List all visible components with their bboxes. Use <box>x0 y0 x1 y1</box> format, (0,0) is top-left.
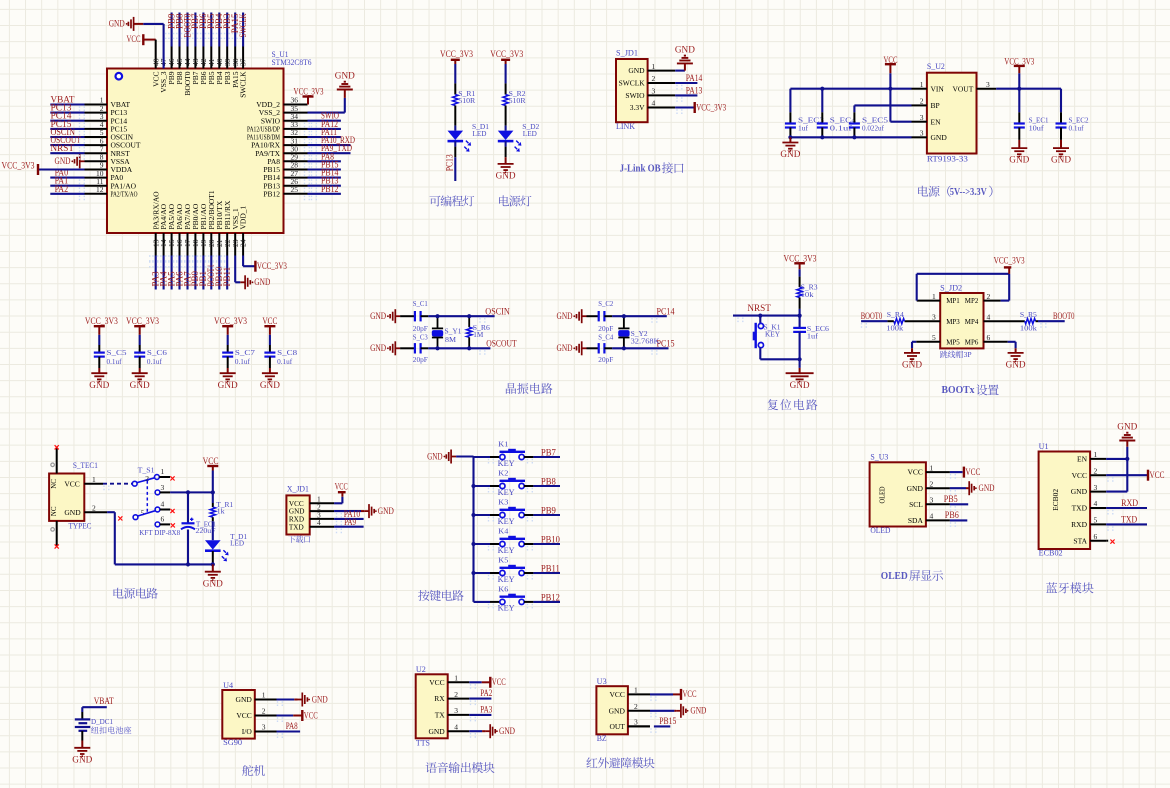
wire <box>799 269 801 276</box>
svg-text:RT9193-33: RT9193-33 <box>927 155 968 164</box>
LED T_D1 <box>205 521 247 561</box>
U1 pin 27 PB14 <box>263 169 307 182</box>
U1 pin 22 PB11/RX <box>223 200 232 255</box>
ground at U1 VSS_2 pin 35 <box>308 71 356 113</box>
U1 pin 45 PB8 <box>175 47 184 85</box>
wire net RXD <box>1106 498 1147 508</box>
svg-text:VCC: VCC <box>304 710 318 720</box>
U1 pin 30 PA9/TX <box>255 144 307 157</box>
capacitor S_C8 0.1uf <box>264 335 297 368</box>
ground at S_U3 pin 2 <box>950 481 995 495</box>
capacitor S_EC3 1uf <box>785 89 824 138</box>
svg-text:PB5: PB5 <box>944 494 958 504</box>
svg-text:VCC: VCC <box>262 316 277 326</box>
junction <box>435 314 439 318</box>
svg-text:VCC: VCC <box>965 467 980 477</box>
wire net VBAT <box>82 696 114 712</box>
svg-text:GND: GND <box>64 508 81 517</box>
svg-text:32.768K: 32.768K <box>631 336 661 345</box>
power flag VCC_3V3 at S_JD1 pin 4 <box>675 102 726 113</box>
svg-text:K5: K5 <box>498 556 508 565</box>
svg-text:PB12: PB12 <box>541 592 560 602</box>
svg-text:GND: GND <box>1051 155 1072 165</box>
svg-text:VOUT: VOUT <box>952 84 973 93</box>
U1 pin 1 EN <box>1077 450 1106 463</box>
S_JD1 pin 2 SWCLK <box>619 74 676 87</box>
svg-text:GND: GND <box>1006 360 1027 370</box>
svg-text:2: 2 <box>920 97 924 106</box>
wire net PB15 <box>308 160 341 170</box>
junction <box>471 484 475 488</box>
svg-text:PC14: PC14 <box>657 306 675 316</box>
svg-text:3: 3 <box>161 483 165 492</box>
svg-text:BOOT0: BOOT0 <box>861 311 883 321</box>
wire net BOOT1 <box>206 256 216 290</box>
svg-text:VCC_3V3: VCC_3V3 <box>126 316 159 326</box>
wire net OSCOUT <box>428 339 517 349</box>
svg-text:SWCLK: SWCLK <box>238 13 248 37</box>
svg-text:S_C7: S_C7 <box>235 348 255 357</box>
wire net PA9 <box>334 517 364 527</box>
S_JD2 pin 4 lead <box>984 320 1025 322</box>
U1 pin 15 PA5/AO <box>167 203 176 255</box>
svg-text:VCC: VCC <box>1150 470 1165 480</box>
junction <box>888 87 892 91</box>
svg-text:3: 3 <box>986 80 990 89</box>
push button K3 KEY <box>474 498 526 526</box>
svg-text:GND: GND <box>628 66 645 75</box>
power flag VCC at S_U3 pin 1 <box>950 467 981 478</box>
svg-text:GND: GND <box>370 311 386 321</box>
power flag VCC_3V3 above S_R3 <box>784 253 817 269</box>
U2 pin 3 VOUT <box>952 80 996 93</box>
svg-text:SWCLK: SWCLK <box>619 79 646 88</box>
svg-text:1uf: 1uf <box>807 331 819 340</box>
speech module U2 TTS body <box>416 665 448 747</box>
svg-text:PB8: PB8 <box>541 476 556 486</box>
push button K4 KEY <box>474 527 526 555</box>
U1 pin 3 PC14 <box>85 112 128 125</box>
svg-text:S_TEC1: S_TEC1 <box>73 461 98 470</box>
crystal S_Y1 8M <box>432 316 462 348</box>
ground at S_C2 <box>557 309 587 323</box>
svg-text:GND: GND <box>130 380 151 390</box>
svg-text:2: 2 <box>634 702 638 711</box>
ground at U1 VSS_1 pin 23 <box>235 256 271 290</box>
svg-text:S_C5: S_C5 <box>107 348 127 357</box>
wire net PB6 <box>945 510 968 520</box>
ground below S_D2 <box>496 141 517 180</box>
S_JD2 pin 1 lead <box>917 300 941 302</box>
wire VCC to EN pin <box>890 89 911 122</box>
X_JD1 pin 3 RXD <box>289 510 334 523</box>
svg-text:1: 1 <box>454 674 458 683</box>
U1 pin 32 PA11/USB/DM <box>247 128 308 141</box>
wire net PA14 <box>675 73 703 83</box>
bluetooth module U1 ECB02 body <box>1039 442 1091 557</box>
svg-text:K3: K3 <box>498 498 508 507</box>
U2 pin 2 RX <box>434 690 469 703</box>
capacitor S_EC5 0.022uf <box>849 112 888 137</box>
ground below S_EC1 <box>1009 140 1030 165</box>
wire VCC loop <box>917 274 1010 301</box>
svg-text:TXD: TXD <box>1121 514 1137 524</box>
S_JD2 pins 1/2 MP1 MP2 <box>932 292 991 305</box>
svg-text:3: 3 <box>652 87 656 96</box>
wire <box>799 309 801 316</box>
svg-text:EN: EN <box>931 117 942 126</box>
U1 pin 5 RXD <box>1071 516 1106 529</box>
svg-text:GND: GND <box>236 695 253 704</box>
svg-text:KEY: KEY <box>765 330 781 339</box>
svg-text:VCC: VCC <box>609 690 624 699</box>
svg-text:LINK: LINK <box>616 122 635 131</box>
svg-text:2: 2 <box>92 503 96 512</box>
wire <box>505 64 507 83</box>
svg-text:VCC_3V3: VCC_3V3 <box>214 316 247 326</box>
svg-text:PB11: PB11 <box>222 267 232 287</box>
svg-text:VCC: VCC <box>492 677 506 687</box>
resistor S_R3 10k <box>797 277 818 309</box>
svg-text:TTS: TTS <box>416 738 430 747</box>
wire net PB11 <box>524 563 560 573</box>
wire net PB9 <box>524 505 560 515</box>
svg-text:10k: 10k <box>801 290 814 299</box>
junction <box>467 346 471 350</box>
wire switch common to VCC node <box>160 491 213 493</box>
svg-text:VCC: VCC <box>907 468 922 477</box>
wire net PB8 <box>524 476 560 486</box>
U4 pin 2 VCC <box>236 707 276 720</box>
power flag VCC_3V3 at U2 VOUT <box>1004 56 1034 88</box>
svg-text:S_U2: S_U2 <box>927 62 945 71</box>
power flag VCC above S_C8 <box>262 316 277 335</box>
svg-text:SWIO: SWIO <box>625 91 645 100</box>
power flag VCC at U3 pin 1 <box>650 689 697 700</box>
U1 pin 14 PA4/AO <box>159 203 168 255</box>
svg-text:VCC_3V3: VCC_3V3 <box>696 102 726 112</box>
svg-text:S_R4: S_R4 <box>887 310 904 319</box>
svg-text:PA13: PA13 <box>686 85 703 95</box>
svg-text:5V-->3.3V: 5V-->3.3V <box>950 187 987 198</box>
S_JD2 pins 5/6 MP5 MP6 <box>932 333 991 346</box>
caption BOOTx设置 <box>942 384 999 396</box>
U1 pin 46 PB9 <box>167 47 176 85</box>
caption 按键电路 <box>418 590 429 601</box>
svg-text:VCC_3V3: VCC_3V3 <box>85 316 118 326</box>
U1 STA stub <box>1106 540 1114 544</box>
svg-text:0.1uf: 0.1uf <box>147 357 162 366</box>
svg-text:4: 4 <box>987 312 991 321</box>
U1 pin 5 OSCIN <box>85 128 134 141</box>
power flag VCC_3V3 at U1 VDD_1 pin 24 <box>243 256 287 272</box>
svg-text:GND: GND <box>690 706 706 716</box>
wire net PB11 <box>222 256 232 290</box>
svg-text:3: 3 <box>1094 483 1098 492</box>
svg-text:PC13: PC13 <box>445 154 455 171</box>
svg-text:100k: 100k <box>886 324 903 333</box>
ground below reset circuit <box>786 359 814 390</box>
ground at U1 VSSA pin 8 <box>55 154 85 168</box>
svg-text:SDA: SDA <box>908 516 924 525</box>
U1 pin 23 VSS_1 <box>231 208 240 256</box>
U1 pin 35 VSS_2 <box>259 104 308 117</box>
U2 pin 4 GND <box>428 722 469 735</box>
svg-text:S_C2: S_C2 <box>598 299 613 308</box>
svg-text:PB7: PB7 <box>541 447 556 457</box>
U1 pin 37 SWCLK <box>239 47 248 98</box>
wire GND bus <box>790 136 911 138</box>
svg-text:NC: NC <box>50 479 58 489</box>
svg-text:1: 1 <box>920 80 924 89</box>
svg-text:U3: U3 <box>597 677 607 686</box>
svg-text:1: 1 <box>92 475 96 484</box>
wire net BOOT0 right <box>1038 311 1075 321</box>
svg-text:10uf: 10uf <box>1029 124 1045 133</box>
U1 pin 2 VCC <box>1072 466 1107 479</box>
junction <box>471 542 475 546</box>
svg-text:GND: GND <box>89 380 110 390</box>
ground below battery <box>72 741 93 765</box>
wire net PA9_TXD <box>308 143 353 153</box>
S_TEC1 bottom shield stub <box>51 521 59 549</box>
push button K1 KEY <box>474 440 526 468</box>
svg-text:0.1uf: 0.1uf <box>107 357 122 366</box>
svg-text:VCC: VCC <box>335 481 348 491</box>
wire <box>212 551 214 564</box>
svg-text:3.3V: 3.3V <box>630 103 645 112</box>
svg-text:VCC_3V3: VCC_3V3 <box>257 261 287 271</box>
wire net PA8 <box>308 151 341 161</box>
ground below S_C5 <box>89 368 110 390</box>
U1 pin 29 PA8 <box>267 153 307 166</box>
svg-text:0.022uf: 0.022uf <box>862 124 884 133</box>
svg-text:GND: GND <box>335 71 356 81</box>
svg-text:RX: RX <box>434 694 445 703</box>
U1 pin 10 PA0 <box>85 169 124 182</box>
svg-text:U4: U4 <box>223 681 233 690</box>
wire net PB6 <box>198 13 208 47</box>
U1 pin 42 PB6 <box>199 47 208 85</box>
U1 pin 24 VDD_1 <box>239 206 248 256</box>
svg-text:VCC: VCC <box>64 479 79 488</box>
svg-text:STM32C8T6: STM32C8T6 <box>272 58 312 67</box>
junction <box>186 562 190 566</box>
U4 pin 1 GND <box>236 691 277 704</box>
power flag VCC at U4 pin 2 <box>277 710 318 721</box>
svg-text:VCC_3V3: VCC_3V3 <box>440 49 473 59</box>
U1 pin 39 PB3 <box>223 47 232 85</box>
S_TEC1 pin 2 GND <box>84 503 107 512</box>
svg-text:VCC: VCC <box>429 678 444 687</box>
svg-text:STA: STA <box>1073 536 1087 545</box>
battery D_DC1 纽扣电池座 <box>75 712 113 741</box>
power flag VCC at U2 pin 1 <box>469 677 506 688</box>
junction <box>467 314 471 318</box>
svg-text:2: 2 <box>454 690 458 699</box>
svg-text:MP5: MP5 <box>946 337 960 346</box>
U4 pin 3 I/O <box>242 723 277 736</box>
svg-text:VCC: VCC <box>289 500 304 508</box>
U1 pin 18 PB0/AO <box>191 203 200 255</box>
svg-text:S_R5: S_R5 <box>1020 310 1037 319</box>
resistor S_R1 510R <box>453 83 476 125</box>
U1 pin 3 GND <box>1071 483 1106 496</box>
svg-text:OSCOUT: OSCOUT <box>486 339 517 349</box>
svg-text:VCC: VCC <box>683 689 697 699</box>
ground at X_JD1 pin 2 <box>334 504 394 518</box>
wire net SWIO <box>308 111 341 121</box>
power flag VCC at X_JD1 pin 1 <box>334 481 348 503</box>
U1 pin 21 PB10/TX <box>215 200 224 255</box>
IR module U3 BZ body <box>596 677 628 743</box>
junction <box>211 562 215 566</box>
wire net PB8 <box>174 13 184 47</box>
S_JD1 pin 3 SWIO <box>625 87 675 100</box>
op-amp U1 body (STM32C8T6 MCU S_U1) <box>107 50 312 233</box>
caption OLED屏显示 <box>881 570 943 582</box>
svg-text:GND: GND <box>370 343 386 353</box>
svg-text:K2: K2 <box>498 469 508 478</box>
wire net PB10 <box>214 256 224 290</box>
junction <box>622 314 626 318</box>
svg-text:25: 25 <box>291 185 299 194</box>
svg-text:GND: GND <box>218 380 239 390</box>
wire <box>454 126 456 131</box>
svg-text:X_JD1: X_JD1 <box>287 485 309 494</box>
ground at U4 pin 1 <box>277 693 329 707</box>
ground at U1 VSS_3 pin 47 <box>109 17 164 69</box>
svg-text:MP3: MP3 <box>946 317 960 326</box>
capacitor S_C4 20pF <box>587 332 614 364</box>
svg-text:4: 4 <box>1094 499 1098 508</box>
capacitor S_EC2 0.1uf <box>1056 89 1089 140</box>
svg-text:SWCLK: SWCLK <box>239 71 248 98</box>
svg-text:GND: GND <box>499 726 515 736</box>
S_JD2 pin 5 lead and ground <box>902 342 940 370</box>
wire net PB13 <box>308 176 341 186</box>
switch T_S1 KFT DIP-8X8 <box>118 465 180 537</box>
wire net OSCIN <box>50 127 84 137</box>
svg-text:GND: GND <box>931 133 948 142</box>
power flag VCC_3V3 at U1 VDD_2 pin 36 <box>294 86 324 104</box>
svg-text:3: 3 <box>932 312 936 321</box>
svg-text:37: 37 <box>239 58 248 66</box>
capacitor S_C5 0.1uf <box>94 335 127 368</box>
U2 pin 3 EN <box>912 113 942 126</box>
svg-text:510R: 510R <box>509 96 526 105</box>
wire <box>760 348 799 360</box>
svg-text:PB9: PB9 <box>541 505 556 515</box>
svg-text:LED: LED <box>523 129 538 138</box>
svg-text:1: 1 <box>932 292 936 301</box>
svg-text:GND: GND <box>609 706 626 715</box>
svg-text:RXD: RXD <box>1121 498 1138 508</box>
wire net PA8 <box>277 721 301 732</box>
U1 pin 6 STA <box>1073 532 1106 545</box>
svg-text:GND: GND <box>790 380 811 390</box>
U1 pin 13 PA3/RX/AO <box>151 191 160 256</box>
svg-text:0.1uf: 0.1uf <box>1069 124 1084 133</box>
servo connector U4 SG90 body <box>222 681 255 747</box>
net snap dots <box>80 34 1113 739</box>
svg-text:KEY: KEY <box>498 575 515 584</box>
svg-text:0.1uf: 0.1uf <box>235 357 250 366</box>
power flag VCC_3V3 above S_C6 <box>126 316 159 335</box>
svg-text:0.1uf: 0.1uf <box>277 357 292 366</box>
U1 pin 41 PB5 <box>207 47 216 85</box>
wire net PC13 <box>445 141 456 181</box>
ground below S_C7 <box>218 368 239 390</box>
svg-text:ECB02: ECB02 <box>1051 489 1060 511</box>
svg-text:OUT: OUT <box>609 722 625 731</box>
ground at S_C3 <box>370 341 400 355</box>
svg-text:1: 1 <box>652 62 656 71</box>
connector S_JD1 (J-Link OB) body <box>616 49 648 131</box>
svg-text:VCC_3V3: VCC_3V3 <box>294 86 324 96</box>
U1 pin 9 VDDA <box>85 161 133 174</box>
wire net PB7 <box>190 13 200 47</box>
wire net PB1 <box>198 256 208 290</box>
svg-text:1: 1 <box>1094 450 1098 459</box>
U1 pin 44 BOOT0 <box>183 47 192 96</box>
S_JD2 pin 2 lead <box>984 300 1001 302</box>
svg-text:1: 1 <box>930 463 934 472</box>
wire net PB15 <box>628 716 677 726</box>
svg-text:PA2: PA2 <box>55 184 69 194</box>
svg-text:RXD: RXD <box>1071 520 1087 529</box>
wire BP to capacitor S_EC5 <box>854 105 911 112</box>
ground below power circuit <box>203 564 224 588</box>
svg-text:3: 3 <box>920 129 924 138</box>
svg-text:BOOT0: BOOT0 <box>1053 311 1075 321</box>
svg-text:KFT DIP-8X8: KFT DIP-8X8 <box>139 528 180 537</box>
svg-text:S_U3: S_U3 <box>870 453 888 462</box>
wire <box>505 126 507 131</box>
S_JD2 pins 3/4 MP3 MP4 <box>932 312 991 325</box>
svg-text:VCC_3V3: VCC_3V3 <box>490 49 523 59</box>
svg-text:PB11: PB11 <box>541 563 560 573</box>
S_TEC1 pin 1 VCC <box>84 475 103 484</box>
svg-text:PA8: PA8 <box>286 721 298 731</box>
svg-text:PB12: PB12 <box>321 184 339 194</box>
U2 pin 1 VCC <box>429 674 469 687</box>
wire net TXD <box>1106 514 1147 524</box>
LED S_D1 <box>448 122 490 152</box>
S_JD2 pin 3 lead <box>905 320 941 322</box>
svg-text:GND: GND <box>203 578 224 588</box>
svg-text:GND: GND <box>907 484 924 493</box>
capacitor S_EC6 1uf <box>793 316 829 360</box>
wire net PC15 <box>612 339 675 349</box>
U1 pin 28 PB15 <box>263 161 307 174</box>
wire net PB7 <box>524 447 560 457</box>
U2 pin 3 TX <box>435 706 470 719</box>
wire net PA10 <box>334 509 364 519</box>
capacitor S_EC4 0.1uf <box>817 89 856 138</box>
U3 pin 1 VCC <box>609 686 650 699</box>
svg-text:GND: GND <box>427 451 443 461</box>
svg-text:BOOTx: BOOTx <box>942 385 976 396</box>
wire net PC14 <box>612 306 675 316</box>
wire net PA5 <box>166 256 176 290</box>
svg-text:2: 2 <box>262 707 266 716</box>
svg-text:20pF: 20pF <box>413 355 428 364</box>
wire net NRST <box>733 303 800 316</box>
S_U3 pin 2 GND <box>907 479 950 492</box>
svg-text:LED: LED <box>473 129 488 138</box>
U1 pin 11 PA1/AO <box>85 177 137 190</box>
